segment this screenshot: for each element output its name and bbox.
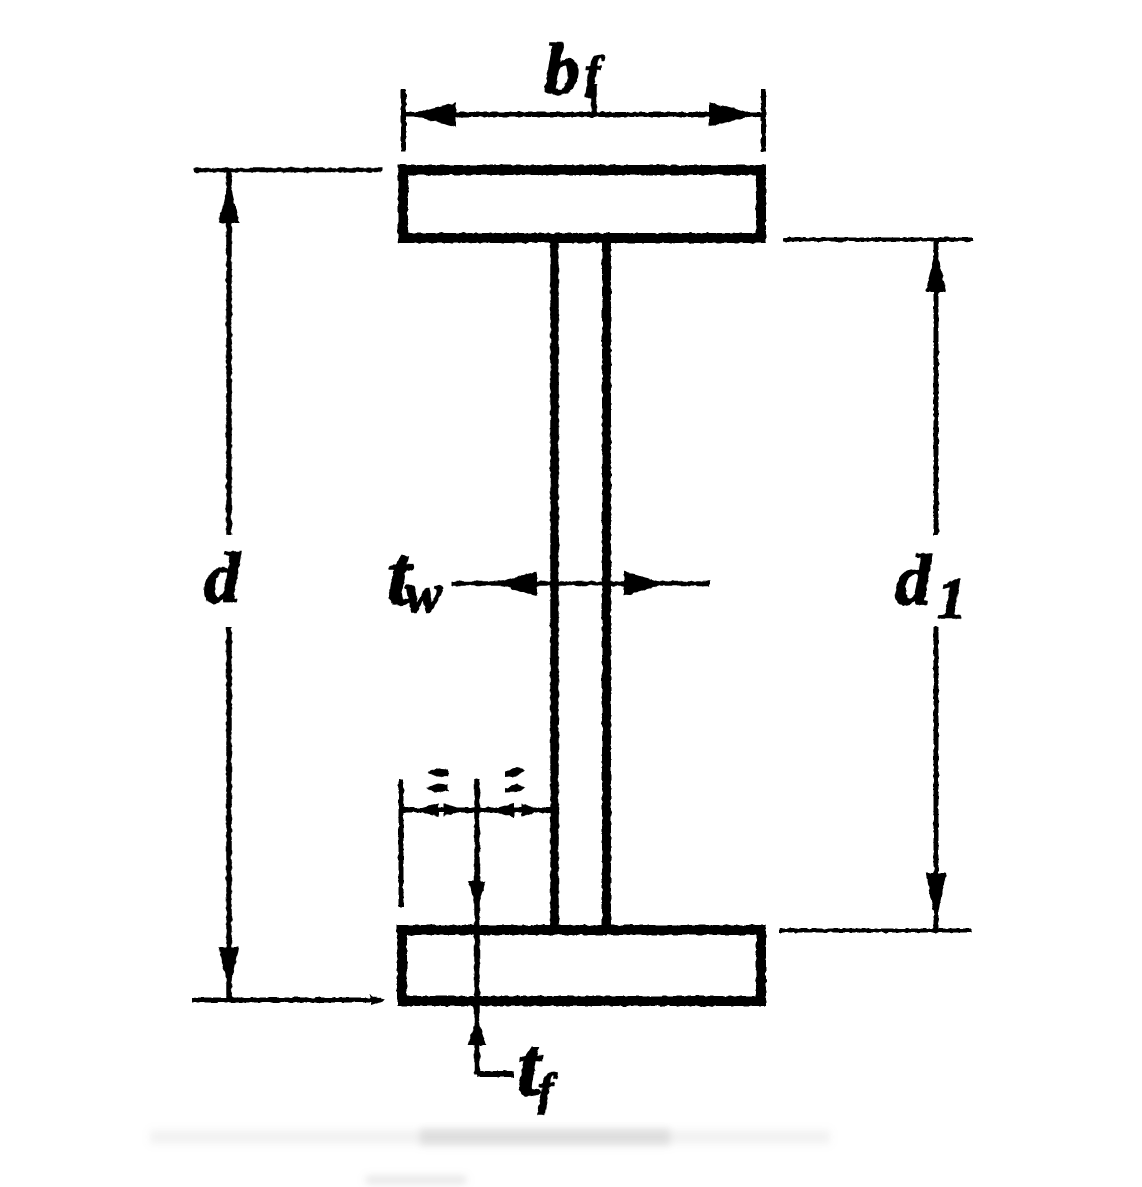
tf down arrowhead [470, 882, 485, 908]
bf dimension line [403, 112, 764, 117]
bf left arrowhead [412, 104, 455, 126]
label d [204, 538, 241, 618]
d dimension line lower segment [226, 627, 232, 1000]
tf up arrowhead [470, 1019, 485, 1044]
faint scan smudge band [150, 1128, 830, 1184]
d dimension bottom extension line [192, 998, 376, 1003]
flange half-width extension line [399, 779, 404, 907]
label bf [544, 29, 605, 109]
web right line [602, 240, 611, 928]
d1 dimension line lower segment [934, 627, 939, 930]
half-width arrowhead a3 [491, 804, 514, 817]
label d1 [895, 540, 966, 631]
tw left arrowhead [499, 573, 536, 596]
top flange outline [403, 170, 761, 238]
bottom flange outline [402, 930, 761, 1001]
bf dimension left extension tick [401, 89, 406, 151]
d1 dimension line upper segment [934, 240, 939, 536]
d dimension line upper segment [226, 170, 232, 535]
d1 dimension bottom extension line [779, 929, 972, 933]
equal mark left pair [426, 769, 448, 793]
svg-text:1: 1 [937, 566, 966, 631]
d down arrowhead [220, 948, 238, 987]
d dimension top extension line [194, 168, 382, 173]
d bottom extension tiny right arrowhead [371, 996, 384, 1005]
flange half-width dimension line [399, 808, 553, 813]
svg-text:b: b [544, 29, 580, 109]
svg-text:d: d [895, 540, 932, 620]
bf dimension right extension tick [761, 89, 766, 151]
equal mark right pair [505, 768, 526, 793]
tf leader bend [477, 1071, 514, 1077]
tw right arrowhead [625, 573, 662, 596]
d up arrowhead [220, 183, 238, 222]
d1 dimension top extension line [783, 238, 973, 242]
tf dimension vertical line [474, 779, 480, 1074]
half-width arrowhead a2 [444, 804, 463, 816]
d1 down arrowhead [927, 874, 945, 918]
svg-text:w: w [405, 563, 443, 625]
tw leader line [452, 581, 710, 586]
half-width arrowhead a4 [522, 804, 541, 816]
label tw [387, 529, 443, 625]
svg-text:d: d [204, 538, 241, 618]
label tf [517, 1020, 558, 1115]
half-width arrowhead a1 [415, 804, 438, 817]
bf label leader arrow [591, 84, 597, 114]
web left line [550, 240, 559, 928]
bf right arrowhead [710, 104, 753, 126]
d1 up arrowhead [927, 251, 945, 291]
